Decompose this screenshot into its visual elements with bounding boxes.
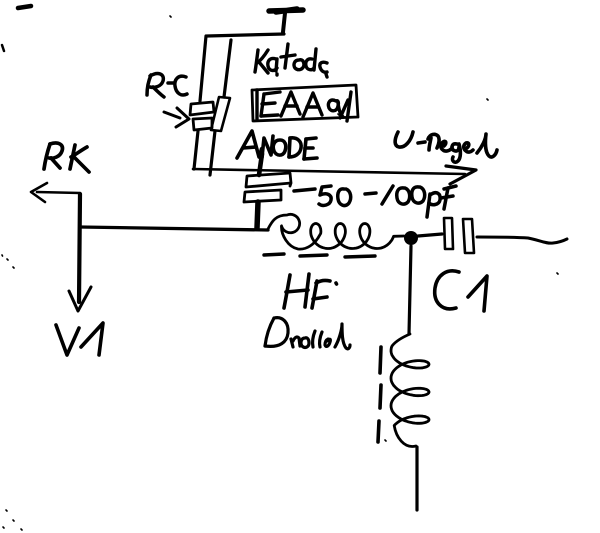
variable capacitor stub xyxy=(257,202,258,228)
capacitor C (R-C network) plate boxes xyxy=(190,102,214,130)
wire left branch lower xyxy=(194,131,198,169)
wire left branch upper xyxy=(200,36,206,101)
label RK xyxy=(44,143,89,172)
tube label EAA91 xyxy=(257,90,351,121)
wire right output xyxy=(477,237,567,243)
label C1 xyxy=(435,271,487,311)
label V1 xyxy=(56,323,103,355)
tube EAA91 box xyxy=(252,85,358,121)
RK/V1 vertical wire xyxy=(79,194,80,302)
label U-Regel xyxy=(395,132,497,162)
wire bottom xyxy=(415,447,418,510)
resistor R (R-C network) xyxy=(211,97,230,131)
label Katode xyxy=(255,44,327,77)
antenna/plate T symbol xyxy=(269,9,303,32)
RK arrow line xyxy=(37,192,80,193)
variable capacitor top plate xyxy=(246,173,291,187)
capacitor C1 right plate xyxy=(463,219,474,253)
wire junction down xyxy=(409,246,411,334)
junction node dot xyxy=(404,231,418,245)
R-C pointer arrow xyxy=(164,108,189,127)
wire junction to C1 xyxy=(418,234,442,236)
dashed core line under coil xyxy=(264,254,375,257)
wire top horizontal (T stem to left branch) xyxy=(207,34,284,36)
inductor HF Drossel coil xyxy=(268,214,404,249)
wire right branch upper xyxy=(224,40,231,97)
dashed core line left of L2 xyxy=(378,347,381,442)
label -50-100pF xyxy=(294,186,456,217)
capacitor C1 left plate xyxy=(444,218,453,249)
wire main tank line xyxy=(80,227,268,230)
label Drossel xyxy=(265,318,350,349)
variable capacitor bottom plate xyxy=(244,190,281,202)
V1 arrowhead xyxy=(69,287,91,311)
RK arrowhead xyxy=(31,183,47,202)
U-Regel arrowhead xyxy=(446,166,476,184)
label ANODE xyxy=(237,131,317,159)
wire right branch lower xyxy=(210,131,215,175)
inductor L2 vertical coil xyxy=(391,334,429,446)
label R-C xyxy=(147,74,187,97)
label HF xyxy=(284,274,337,308)
wire anode line / U-Regel line xyxy=(193,169,465,174)
anode stub wire xyxy=(259,149,262,175)
